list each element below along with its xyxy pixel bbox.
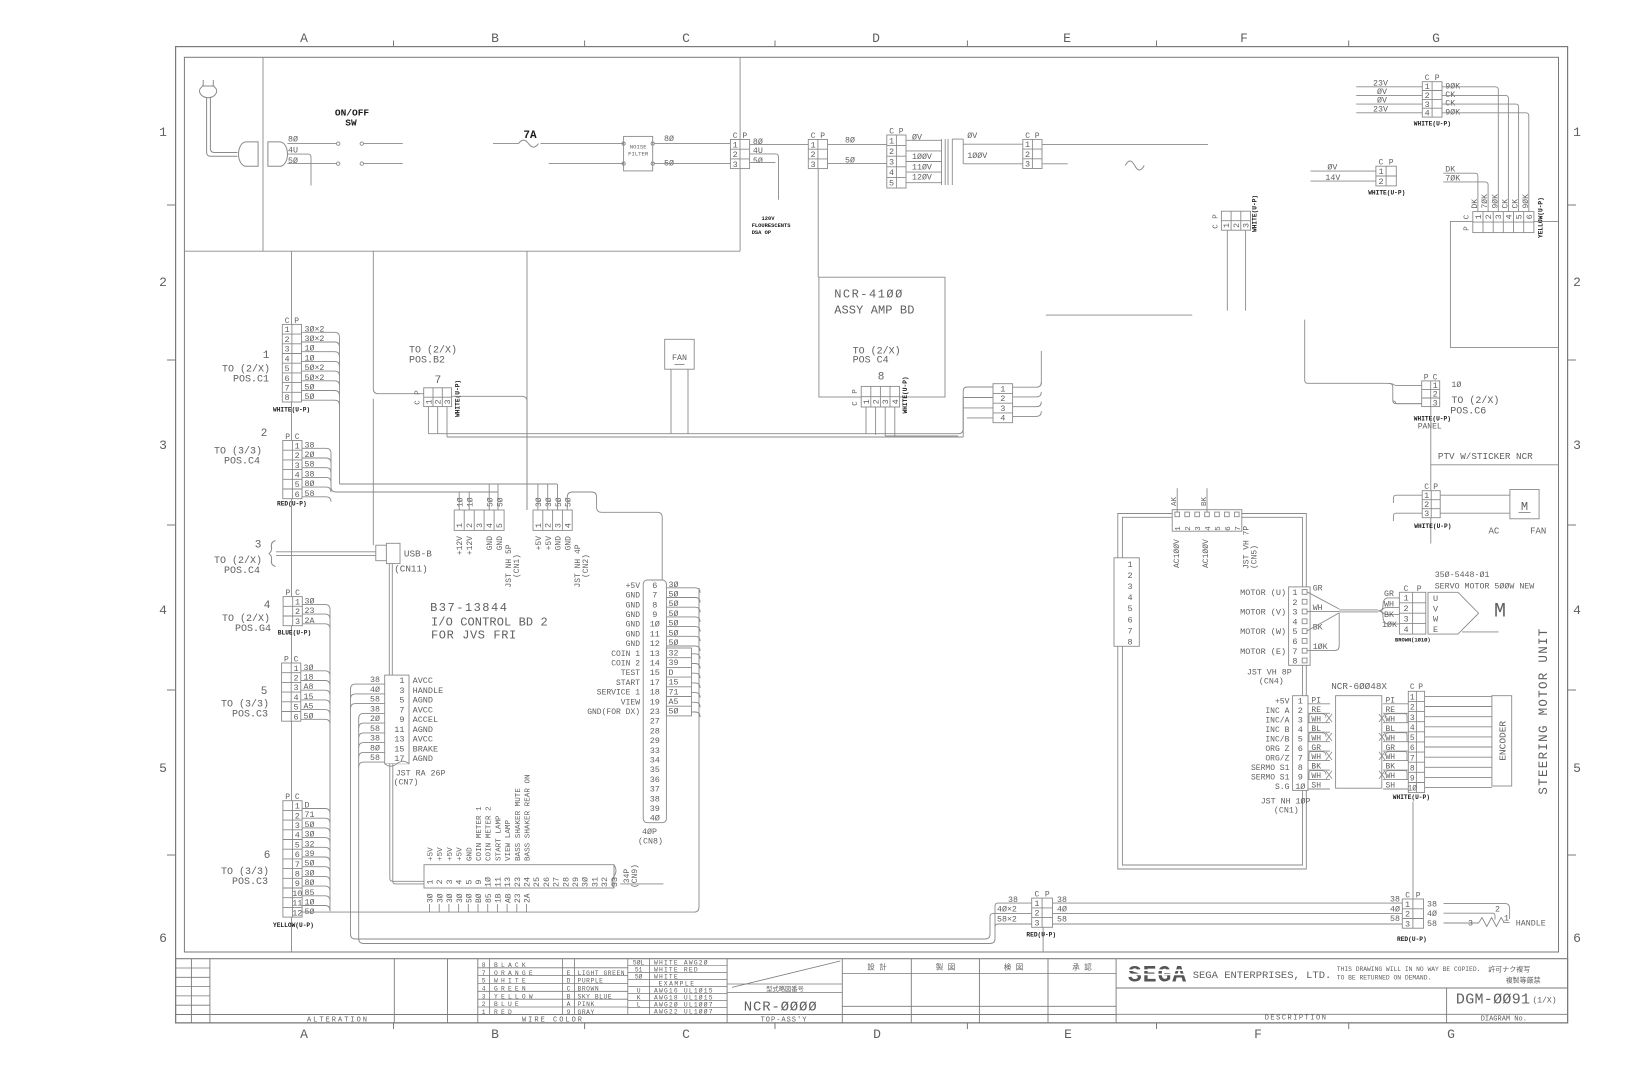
svg-text:4Ø×2: 4Ø×2 [997,905,1017,915]
svg-text:P: P [1435,74,1440,83]
wire 90K to yoke pin3 [1442,87,1498,212]
svg-text:23: 23 [650,707,660,717]
svg-text:2: 2 [1000,394,1005,404]
svg-text:1Ø: 1Ø [305,898,315,908]
wire encoder connector down to handle connector [1412,802,1414,900]
svg-text:5: 5 [1573,761,1581,776]
servo motor connector CP 4P [1399,592,1425,634]
svg-text:1: 1 [1000,384,1005,394]
svg-text:5: 5 [261,686,268,698]
connector 3 cable bracket [269,541,276,567]
svg-text:9ØK: 9ØK [1445,81,1460,91]
svg-text:5: 5 [1298,735,1303,745]
svg-text:4: 4 [485,523,495,528]
svg-text:2: 2 [293,674,298,684]
svg-text:P: P [1389,159,1394,168]
alteration row ticks [176,967,210,969]
svg-text:+5V: +5V [626,582,641,591]
svg-text:3: 3 [889,158,894,168]
svg-text:(CN11): (CN11) [394,564,427,575]
svg-text:ACCEL: ACCEL [413,715,439,725]
connector CP 3P power [730,140,749,169]
svg-text:11ØV: 11ØV [912,163,932,173]
svg-text:25: 25 [532,877,542,887]
wire 100V stub right [1042,163,1067,165]
svg-text:38: 38 [305,470,315,479]
svg-text:+5V: +5V [437,847,445,861]
svg-text:P: P [1424,373,1429,382]
svg-text:3: 3 [1410,714,1415,723]
svg-text:13: 13 [394,735,404,745]
svg-text:BK: BK [1201,496,1209,506]
svg-text:+5V: +5V [545,536,554,551]
svg-text:1: 1 [482,1009,486,1016]
svg-text:STEERING MOTOR UNIT: STEERING MOTOR UNIT [1537,627,1551,794]
label DIAGRAAM No [1447,1013,1568,1015]
wire 4U fluorescent stub [750,154,779,200]
ENCODER box [1492,696,1512,786]
svg-text:23V: 23V [1373,79,1388,88]
svg-text:1: 1 [862,399,872,404]
wire fan pin1 to motor [1440,494,1510,496]
svg-text:C: C [1410,683,1415,692]
svg-text:GND: GND [555,536,564,551]
section divider vertical A1 [262,57,264,251]
svg-text:3: 3 [1433,398,1438,408]
CN9 right stub [620,883,663,885]
USB-B connector CN11 [376,545,387,561]
svg-text:FILTER: FILTER [628,151,649,158]
PTV section divider [1431,464,1559,466]
wire AK to CN5 pin1 [1176,488,1178,512]
svg-text:A: A [300,31,308,46]
svg-text:(CN5): (CN5) [1251,545,1260,569]
svg-text:24: 24 [523,877,533,887]
svg-text:8: 8 [295,870,300,880]
connector CN1 JST NH 5P [454,510,504,530]
usb cable pair to USB-B [276,551,376,553]
connector 1 wires to bundle [302,332,340,337]
svg-text:3Ø: 3Ø [436,893,445,903]
svg-text:A5: A5 [304,703,314,712]
svg-text:+5V: +5V [428,847,436,861]
fan bus wire [428,433,958,435]
svg-text:38: 38 [305,441,315,450]
svg-text:START LAMP: START LAMP [495,815,503,861]
svg-text:6: 6 [1525,214,1535,219]
wire 80 to next connector [750,143,809,145]
svg-text:2: 2 [159,275,167,290]
svg-text:TEST: TEST [621,669,640,678]
connector 6 TO (3/3) POS.C3 [283,801,302,917]
grid row ticks left [167,204,176,206]
svg-text:RED(U-P): RED(U-P) [1026,932,1056,939]
svg-text:37: 37 [650,785,660,795]
svg-text:35Ø-5448-Ø1: 35Ø-5448-Ø1 [1435,570,1490,580]
svg-text:39: 39 [669,659,679,668]
section divider horizontal row2 [184,250,740,252]
svg-text:2: 2 [1292,598,1297,608]
svg-text:P: P [285,589,290,598]
svg-text:3: 3 [1034,919,1039,929]
wire 80 inlet to switch [287,143,336,145]
svg-text:GND: GND [626,621,641,630]
svg-text:7: 7 [285,383,290,393]
svg-text:GND: GND [626,592,641,601]
svg-text:11: 11 [650,629,660,639]
svg-text:2: 2 [1185,526,1193,531]
svg-text:32: 32 [600,877,610,887]
svg-text:4U: 4U [753,147,763,156]
noise filter box [624,136,653,171]
svg-text:F: F [1240,31,1248,46]
svg-text:58: 58 [305,461,315,470]
svg-text:AVCC: AVCC [413,676,433,686]
svg-text:11: 11 [292,899,302,909]
svg-text:18: 18 [304,674,314,683]
svg-text:17: 17 [650,678,660,688]
svg-text:SERVO MOTOR 5ØØW NEW: SERVO MOTOR 5ØØW NEW [1435,582,1535,592]
svg-text:1: 1 [295,802,300,812]
SEGA logo [1128,963,1187,989]
svg-text:29: 29 [650,736,660,746]
wire DK to yoke pin1 [1443,173,1478,211]
svg-text:8: 8 [1292,657,1297,667]
svg-text:4Ø: 4Ø [650,814,660,824]
svg-text:85: 85 [485,893,494,903]
svg-text:32: 32 [305,840,315,849]
CN8 coin/test wire label box [666,648,691,716]
monitor section box [1450,221,1558,347]
svg-text:11: 11 [493,877,503,887]
connector CP 3P handle red [1032,898,1053,927]
svg-text:5Ø: 5Ø [669,609,679,619]
svg-text:ASSY AMP BD: ASSY AMP BD [834,304,914,318]
svg-text:BK: BK [1384,611,1394,620]
svg-text:WHITE(U-P): WHITE(U-P) [1252,195,1259,232]
svg-text:9ØK: 9ØK [1522,194,1531,209]
svg-text:6: 6 [295,490,300,500]
svg-text:8: 8 [1410,764,1415,773]
svg-text:1Ø: 1Ø [1295,782,1305,792]
svg-text:38: 38 [650,794,660,804]
svg-text:2: 2 [261,428,268,440]
svg-text:E: E [1064,1027,1072,1042]
svg-text:ALTERATION: ALTERATION [307,1017,369,1025]
svg-text:14: 14 [650,659,660,669]
svg-text:AC: AC [1489,527,1500,537]
svg-text:JST VH 8P: JST VH 8P [1247,669,1292,678]
svg-text:8: 8 [1298,763,1303,773]
svg-text:1B: 1B [495,893,504,903]
svg-text:C: C [415,400,423,405]
svg-text:E: E [1433,625,1438,635]
svg-text:1: 1 [1025,140,1030,150]
svg-text:2: 2 [285,335,290,345]
svg-text:FAN: FAN [672,354,687,363]
relay connector 4P stub wires left [963,397,993,399]
svg-text:6: 6 [1127,615,1132,625]
svg-text:VIEW LAMP: VIEW LAMP [505,820,513,861]
svg-text:23: 23 [514,893,523,903]
svg-text:BRAKE: BRAKE [413,744,439,754]
svg-text:7: 7 [295,860,300,870]
transformer T1 core [944,139,946,185]
svg-text:38: 38 [1390,896,1400,905]
svg-text:6: 6 [652,581,657,591]
svg-text:58: 58 [1427,920,1437,929]
svg-text:SERVICE 1: SERVICE 1 [597,689,640,698]
svg-text:5: 5 [1292,627,1297,637]
wire 80 to transformer connector [828,143,887,145]
svg-text:5: 5 [1410,734,1415,743]
svg-text:3: 3 [475,523,485,528]
approval columns [910,959,912,1023]
svg-text:3Ø: 3Ø [456,893,465,903]
svg-text:12: 12 [650,639,660,649]
connector PC 3P panel [1422,381,1440,407]
svg-text:SW: SW [345,118,357,129]
svg-text:B37-13844: B37-13844 [430,601,508,615]
svg-text:P: P [1464,226,1472,231]
svg-text:23: 23 [513,877,523,887]
wire 0V long to right [1042,144,1208,146]
svg-text:AWG22 UL1ØØ7: AWG22 UL1ØØ7 [654,1007,714,1015]
svg-text:+12V: +12V [466,536,475,555]
svg-text:8Ø: 8Ø [370,743,380,753]
bottom strip line [176,1014,1117,1016]
svg-text:NCR-6ØØ48X: NCR-6ØØ48X [1331,681,1387,692]
wire bus to CN1 pins [331,487,498,492]
connector 7 right wire [452,396,527,510]
svg-text:10: 10 [292,889,302,899]
svg-text:3Ø: 3Ø [545,497,554,507]
connector 1 TO (2/X) POS.C1 [282,324,301,402]
AC inlet connector female half [268,142,288,166]
svg-text:32: 32 [669,650,679,659]
svg-text:3: 3 [255,540,262,552]
svg-text:3: 3 [881,399,891,404]
svg-text:1: 1 [534,523,544,528]
svg-text:WHITE(U-P): WHITE(U-P) [1414,416,1451,423]
svg-text:WHITE(U-P): WHITE(U-P) [1414,523,1451,530]
svg-text:FLOURESCENTS: FLOURESCENTS [752,223,792,229]
svg-text:P: P [1433,483,1438,492]
svg-text:4Ø: 4Ø [1057,905,1067,915]
svg-text:P: P [1418,683,1423,692]
svg-text:3: 3 [1292,608,1297,618]
svg-text:1: 1 [293,664,298,674]
svg-text:1: 1 [1403,594,1408,604]
svg-text:1: 1 [889,136,894,146]
red connector wire down to border [1042,927,1044,952]
grid row ticks right [1568,204,1576,206]
svg-text:19: 19 [650,697,660,707]
svg-text:DESCRIPTION: DESCRIPTION [1265,1015,1328,1023]
svg-text:1: 1 [1222,223,1232,228]
transformer secondary 0V wire [952,138,963,140]
svg-text:8Ø: 8Ø [288,135,298,145]
svg-text:A8: A8 [304,683,314,692]
svg-text:4: 4 [293,693,298,703]
svg-text:4: 4 [1410,724,1415,733]
svg-text:START: START [616,679,640,688]
svg-text:2: 2 [1232,223,1242,228]
svg-text:AGND: AGND [413,754,433,764]
handle wire top [1444,903,1510,919]
svg-text:COIN METER 2: COIN METER 2 [486,806,494,861]
svg-text:5: 5 [295,480,300,490]
svg-text:11: 11 [394,725,404,735]
svg-text:C: C [1213,224,1221,229]
steering harness loop inner [1122,517,1302,865]
svg-text:1: 1 [1034,899,1039,909]
svg-text:3: 3 [1405,919,1410,929]
svg-text:P: P [899,128,904,137]
svg-text:7: 7 [435,375,442,387]
svg-text:7: 7 [652,591,657,601]
svg-text:(CN4): (CN4) [1259,677,1284,687]
relay connector wires right to riser [1013,382,1042,387]
svg-text:TOP-ASS'Y: TOP-ASS'Y [761,1017,808,1025]
svg-text:2: 2 [811,150,816,160]
svg-text:DIAGRAM No.: DIAGRAM No. [1481,1016,1527,1024]
svg-text:POS.C3: POS.C3 [232,710,268,721]
wires down from distribution connector [1226,230,1228,311]
svg-text:1Ø: 1Ø [305,344,315,354]
svg-text:8Ø: 8Ø [753,137,763,147]
connector CN8 40P [643,580,666,823]
svg-text:MOTOR (V): MOTOR (V) [1240,608,1286,618]
svg-text:3: 3 [445,879,455,884]
svg-text:DGM-ØØ91: DGM-ØØ91 [1456,992,1530,1009]
servo motor plug pentagon [1428,592,1479,634]
svg-text:1: 1 [159,125,167,140]
svg-text:(CN2): (CN2) [582,554,591,578]
svg-text:MOTOR (W): MOTOR (W) [1240,627,1286,637]
wire from connector down to amp bd [817,169,819,278]
svg-text:2: 2 [435,879,445,884]
svg-text:7ØK: 7ØK [1445,173,1460,183]
svg-text:1: 1 [1127,560,1132,570]
svg-text:2: 2 [465,523,475,528]
svg-text:38: 38 [1427,900,1437,909]
svg-text:P: P [1416,892,1421,901]
title block outline [176,959,1568,1023]
svg-text:VIEW: VIEW [621,698,640,707]
wire bus to CN1 [340,483,558,485]
svg-text:3Ø: 3Ø [669,580,679,590]
svg-text:WIRE COLOR: WIRE COLOR [522,1017,584,1025]
svg-text:2: 2 [1405,910,1410,920]
svg-text:3: 3 [1424,509,1429,519]
svg-text:4ØP: 4ØP [642,827,657,837]
svg-text:4: 4 [1403,625,1408,635]
svg-text:5: 5 [285,364,290,374]
svg-text:INC A: INC A [1265,707,1289,716]
svg-text:2: 2 [295,607,300,617]
svg-text:15: 15 [304,693,314,702]
svg-text:1: 1 [1405,900,1410,910]
handle wire mid [1444,913,1496,919]
svg-text:2Ø: 2Ø [370,714,380,724]
svg-text:34: 34 [650,756,660,766]
svg-text:18: 18 [650,688,660,698]
svg-text:35: 35 [650,765,660,775]
svg-text:WHITE(U-P): WHITE(U-P) [1368,189,1405,196]
svg-text:GR: GR [1384,590,1394,599]
svg-text:1: 1 [1378,167,1383,177]
connector 5 wires to bundle [301,671,330,676]
svg-text:WHITE(U-P): WHITE(U-P) [1393,794,1430,801]
wires 0V/14V stubs [1311,170,1376,172]
svg-text:5Ø: 5Ø [753,156,763,166]
wire fan pin3 to motor [1440,512,1510,514]
svg-text:1: 1 [1410,694,1415,703]
noise filter terminals [622,142,625,145]
svg-text:39: 39 [650,804,660,814]
svg-text:RED: RED [494,1009,515,1016]
svg-text:1Ø: 1Ø [650,620,660,630]
riser up to relay connector [958,387,993,434]
svg-text:P: P [1035,132,1040,141]
svg-text:3: 3 [285,345,290,355]
svg-text:DSA OP: DSA OP [752,230,771,236]
wire 100V to output connector [963,163,1023,165]
svg-text:1ØK: 1ØK [1382,620,1397,630]
svg-text:12: 12 [292,908,302,918]
svg-text:4: 4 [1292,617,1297,627]
svg-text:D: D [873,1027,881,1042]
CN2 wires up [537,484,539,510]
svg-text:1: 1 [1175,526,1183,531]
svg-text:CK: CK [1512,199,1521,209]
svg-text:120V: 120V [762,216,776,222]
svg-text:5Ø: 5Ø [555,497,564,507]
svg-text:4: 4 [295,831,300,841]
svg-text:15: 15 [669,679,679,688]
svg-text:7: 7 [1410,754,1415,763]
svg-text:C: C [682,31,690,46]
svg-text:1: 1 [399,676,404,686]
svg-text:85: 85 [305,889,315,898]
svg-text:27: 27 [552,877,562,887]
connector CN4 JST VH 8P [1289,587,1311,665]
connector 2 wires to bundle [302,448,331,453]
svg-text:2: 2 [295,451,300,461]
svg-text:4: 4 [1425,109,1430,119]
svg-text:GND: GND [626,640,641,649]
svg-text:5: 5 [1127,604,1132,614]
svg-text:3Ø: 3Ø [535,497,544,507]
svg-text:GND: GND [626,601,641,610]
wire vertical drop to power connector [739,57,741,251]
connector CP 3P horizontal distribution [1221,211,1250,230]
wire bundle connector 2 down [330,453,332,487]
transformer T1 secondary winding [951,139,953,185]
label DESCRIPTION [1116,1013,1447,1015]
svg-text:9: 9 [474,879,484,884]
svg-text:GR: GR [1313,584,1323,593]
amp bd 4P connector horizontal [861,386,899,407]
wire 50 switch to noise filter [364,163,403,165]
svg-text:NOISE: NOISE [630,144,647,151]
svg-text:3: 3 [554,523,564,528]
label TOP-ASS'Y [727,1014,842,1016]
svg-text:P: P [820,132,825,141]
svg-text:1: 1 [295,441,300,451]
svg-text:E: E [1063,31,1071,46]
